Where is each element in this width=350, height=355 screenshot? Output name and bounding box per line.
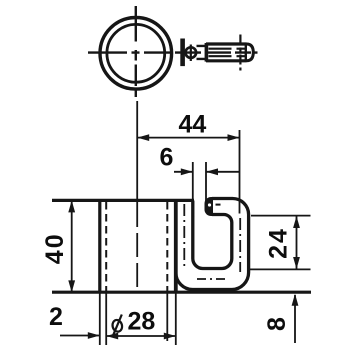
hook chain dash in curl <box>216 204 221 206</box>
rod body top edge <box>206 42 247 45</box>
ring vertical centerline <box>135 6 137 97</box>
front view band rectangle left edge <box>98 200 101 292</box>
horizontal centerline <box>88 51 258 53</box>
rod body bottom edge <box>206 59 247 62</box>
pivot circle <box>186 47 197 58</box>
band centerline chain (also 44 left extension) <box>136 101 138 203</box>
dimension phi28 <box>106 294 176 346</box>
rod collar bar 2 <box>205 43 209 62</box>
dimension 40 <box>52 200 98 292</box>
svg-text:24: 24 <box>265 227 293 259</box>
front view band top edge <box>52 199 194 202</box>
front view band bottom edge (extends as 40 and 8 extension line) <box>52 291 311 294</box>
top view outer circle (ring outer edge) <box>100 18 172 90</box>
rod dome end <box>247 44 254 61</box>
hook inner contour <box>193 201 232 269</box>
hook chain centerline bottom <box>197 278 227 280</box>
dimension 8 <box>292 294 299 343</box>
hook outer contour <box>176 199 249 290</box>
top view inner circle (ring inner edge) <box>107 24 165 82</box>
svg-text:40: 40 <box>41 232 69 264</box>
hook chain centerline right arm <box>239 218 241 272</box>
svg-text:44: 44 <box>179 111 207 139</box>
hook chain centerline left arm <box>183 204 185 266</box>
band hidden wall line left <box>105 202 107 291</box>
dimension 44 <box>137 130 239 214</box>
dimension 24 <box>250 216 311 270</box>
pivot vertical tick <box>190 45 192 62</box>
rod hidden thread line upper <box>209 48 246 50</box>
rod hidden thread line lower <box>209 55 246 57</box>
svg-text:6: 6 <box>160 144 174 172</box>
rod dome base line <box>245 44 247 61</box>
dimension 2 <box>60 294 106 346</box>
swivel collar bar <box>180 39 185 67</box>
hook tip cap <box>205 197 214 216</box>
front view band right edge / hook left outer edge <box>174 200 178 292</box>
rod neck <box>197 46 208 59</box>
svg-text:2: 2 <box>49 303 63 331</box>
svg-text:28: 28 <box>128 308 156 336</box>
band hidden wall line right <box>166 202 168 291</box>
dimension 6 <box>174 162 240 201</box>
svg-text:8: 8 <box>263 317 291 331</box>
rod end chain line <box>239 35 241 71</box>
